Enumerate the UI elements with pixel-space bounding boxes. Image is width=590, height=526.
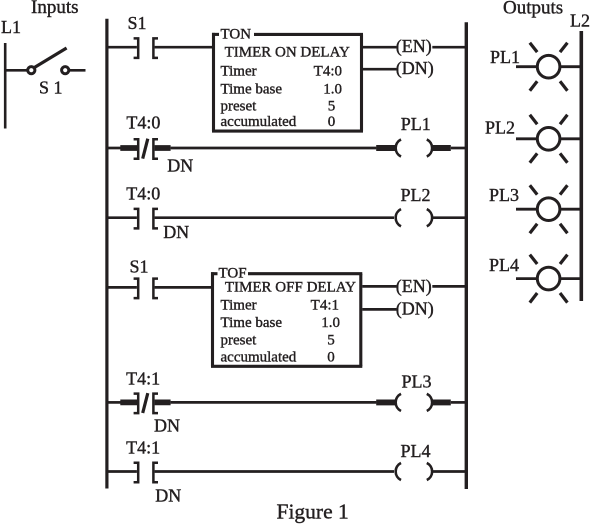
label Outputs — [503, 0, 563, 18]
label PL1 lamp — [490, 47, 520, 67]
wire rung2 left — [107, 147, 121, 150]
coil PL2 — [396, 209, 432, 226]
svg-text:(EN): (EN) — [396, 36, 432, 57]
value Timer T4:1 — [221, 297, 340, 313]
value preset 5 TOF — [221, 333, 335, 349]
svg-text:DN: DN — [167, 156, 193, 176]
right ladder rail — [465, 22, 468, 489]
wire TOF to EN — [362, 285, 396, 288]
svg-text:T4:0: T4:0 — [126, 112, 160, 132]
label PL1 coil — [401, 114, 431, 134]
timer TON T4:0 box — [212, 33, 363, 131]
label DN rung6 — [155, 486, 181, 506]
label Inputs — [31, 0, 79, 18]
svg-text:PL3: PL3 — [489, 185, 519, 205]
wire coil PL1 to rail — [451, 147, 467, 150]
svg-text:Timer: Timer — [221, 297, 257, 313]
svg-text:Timer: Timer — [221, 64, 257, 80]
coil PL3 — [376, 394, 451, 411]
label S1 rung1 — [128, 13, 147, 33]
svg-text:T4:1: T4:1 — [126, 437, 160, 457]
value Time base 1.0 — [221, 81, 343, 97]
svg-text:(EN): (EN) — [396, 276, 432, 297]
wire rung3 left — [107, 216, 137, 219]
svg-text:preset: preset — [221, 333, 258, 349]
svg-text:L2: L2 — [570, 11, 590, 31]
wire rung1 to TON box — [155, 46, 214, 49]
wire EN to right rail — [432, 46, 466, 49]
svg-text:TIMER OFF DELAY: TIMER OFF DELAY — [225, 280, 356, 296]
timer TOF T4:1 box — [211, 272, 362, 366]
svg-text:DN: DN — [154, 416, 180, 436]
wire EN TOF to right rail — [432, 285, 466, 288]
svg-text:accumulated: accumulated — [221, 350, 297, 366]
svg-text:S1: S1 — [128, 13, 147, 33]
svg-text:PL2: PL2 — [485, 118, 515, 138]
svg-text:Figure 1: Figure 1 — [277, 500, 349, 524]
label DN rung5 — [154, 416, 180, 436]
wire rung1 left — [107, 46, 137, 49]
wire rung6 left — [107, 470, 137, 473]
svg-text:PL1: PL1 — [490, 47, 520, 67]
label PL3 lamp — [489, 185, 519, 205]
svg-text:T4:1: T4:1 — [126, 368, 160, 388]
label PL2 coil — [401, 185, 431, 205]
power rail L2 — [579, 31, 583, 301]
svg-text:PL3: PL3 — [402, 371, 432, 391]
label PL4 coil — [401, 441, 431, 461]
svg-text:0: 0 — [327, 350, 335, 366]
wire rung5 to coil — [171, 401, 377, 404]
svg-text:5: 5 — [327, 333, 335, 349]
wire coil PL4 to rail — [432, 470, 466, 473]
label T4:0 rung3 — [126, 184, 160, 204]
svg-text:Time base: Time base — [221, 315, 283, 331]
svg-text:DN: DN — [163, 222, 189, 242]
node L2 — [570, 11, 590, 31]
wire rung5 left — [107, 401, 121, 404]
coil PL1 — [376, 139, 451, 156]
lamp PL1 — [516, 43, 581, 91]
lamp PL4 — [516, 255, 581, 303]
svg-text:T4:0: T4:0 — [314, 64, 342, 80]
label T4:0 rung2 — [126, 112, 160, 132]
svg-text:PL4: PL4 — [489, 255, 519, 275]
svg-text:S1: S1 — [130, 256, 149, 276]
label S 1 — [39, 78, 63, 98]
label T4:1 rung5 — [126, 368, 160, 388]
label PL2 lamp — [485, 118, 515, 138]
label DN rung2 — [167, 156, 193, 176]
label PL4 lamp — [489, 255, 519, 275]
wire TON to EN — [363, 46, 397, 49]
svg-text:Time base: Time base — [221, 81, 283, 97]
coil PL4 — [396, 463, 432, 480]
svg-text:1.0: 1.0 — [321, 315, 340, 331]
svg-text:PL1: PL1 — [401, 114, 431, 134]
svg-text:T4:1: T4:1 — [311, 297, 339, 313]
wire rung3 to coil — [155, 216, 394, 219]
wire rung4 to TOF box — [155, 286, 213, 289]
value accumulated 0 — [221, 114, 336, 130]
wire rung6 to coil — [155, 470, 394, 473]
label S1 rung4 — [130, 256, 149, 276]
value Time base 1.0 TOF — [221, 315, 341, 331]
svg-text:PL2: PL2 — [401, 185, 431, 205]
switch S 1 — [28, 48, 86, 74]
output EN TON — [396, 36, 432, 57]
contact T4:1/DN rung6 (NO) — [134, 463, 158, 483]
caption Figure 1 — [277, 500, 349, 524]
svg-text:DN: DN — [155, 486, 181, 506]
svg-text:PL4: PL4 — [401, 441, 431, 461]
wire rung4 left — [107, 286, 137, 289]
label DN rung3 — [163, 222, 189, 242]
label TIMER ON DELAY — [225, 44, 350, 60]
node L1 — [1, 17, 21, 37]
contact S1 rung1 (NO) — [134, 38, 158, 58]
contact S1 rung4 (NO) — [134, 279, 158, 299]
wire coil PL3 to rail — [451, 401, 467, 404]
lamp PL2 — [516, 115, 581, 163]
svg-text:T4:0: T4:0 — [126, 184, 160, 204]
label PL3 coil — [402, 371, 432, 391]
svg-text:(DN): (DN) — [396, 299, 434, 320]
svg-text:L1: L1 — [1, 17, 21, 37]
value Timer T4:0 — [221, 64, 343, 80]
label TOF — [219, 266, 247, 282]
output DN TON — [396, 58, 434, 79]
svg-text:(DN): (DN) — [396, 58, 434, 79]
svg-text:TIMER ON DELAY: TIMER ON DELAY — [225, 44, 350, 60]
power rail L1 — [4, 43, 7, 129]
label TIMER OFF DELAY — [225, 280, 356, 296]
svg-text:Inputs: Inputs — [31, 0, 79, 18]
svg-text:Outputs: Outputs — [503, 0, 563, 18]
svg-text:1.0: 1.0 — [323, 81, 342, 97]
wire coil PL2 to rail — [432, 216, 466, 219]
wire TON to DN — [363, 68, 397, 71]
wire TOF to DN — [362, 308, 396, 311]
lamp PL3 — [516, 185, 581, 233]
contact T4:0/DN rung2 (NC) — [120, 139, 170, 159]
output EN TOF — [396, 276, 432, 297]
svg-text:5: 5 — [328, 99, 336, 115]
label TON — [221, 27, 252, 43]
left ladder rail — [105, 19, 108, 489]
contact T4:0/DN rung3 (NO) — [134, 209, 158, 229]
svg-text:accumulated: accumulated — [221, 114, 297, 130]
svg-text:TON: TON — [221, 27, 252, 43]
output DN TOF — [396, 299, 434, 320]
svg-text:0: 0 — [328, 114, 336, 130]
contact T4:1/DN rung5 (NC) — [120, 393, 170, 413]
wire L1 to switch — [5, 69, 27, 72]
value accumulated 0 TOF — [221, 350, 335, 366]
value preset 5 — [221, 99, 336, 115]
wire rung2 to coil — [171, 147, 377, 150]
label T4:1 rung6 — [126, 437, 160, 457]
svg-text:preset: preset — [221, 99, 258, 115]
svg-text:S 1: S 1 — [39, 78, 63, 98]
